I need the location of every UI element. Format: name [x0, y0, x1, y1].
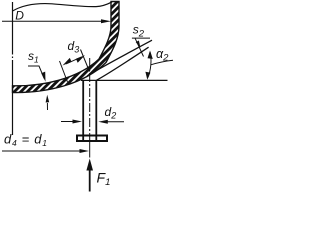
- svg-text:s1: s1: [28, 49, 39, 65]
- dimension line D: [2, 19, 111, 23]
- vessel axis centerline: [12, 2, 14, 135]
- svg-text:d3: d3: [68, 39, 80, 55]
- svg-text:s2: s2: [133, 23, 145, 40]
- s1 opposing arrow (below wall): [46, 95, 50, 110]
- nozzle tube left wall: [82, 81, 84, 142]
- svg-text:α2: α2: [156, 47, 169, 64]
- angle alpha2 arc with arrowheads: [145, 51, 152, 80]
- svg-text:D: D: [15, 9, 24, 23]
- svg-text:d2: d2: [105, 105, 117, 121]
- flange: [77, 136, 107, 142]
- d3 extension line right: [81, 50, 90, 72]
- head shell wall (hatched band): [13, 2, 120, 93]
- nozzle centerline: [89, 58, 91, 142]
- dimension d2 left arrow: [61, 120, 82, 124]
- flare cone wall upper line: [87, 40, 152, 76]
- dimension d3 double arrow: [63, 55, 86, 65]
- flare cone wall lower line: [96, 47, 148, 80]
- dimension d4=d1 line + arrow: [2, 149, 89, 153]
- svg-text:d4 = d1: d4 = d1: [4, 131, 48, 148]
- svg-text:F1: F1: [97, 170, 111, 189]
- opening plane line: [81, 79, 168, 81]
- alpha2 leader line: [151, 60, 173, 65]
- force F1 arrow: [86, 159, 93, 192]
- dimension d2 right arrow: [98, 120, 124, 124]
- s2 leader + arrow: [132, 38, 150, 56]
- break line (wavy top edge): [13, 2, 112, 11]
- d3 extension line left: [60, 61, 68, 82]
- s1 leader + arrow: [28, 66, 46, 82]
- nozzle tube right wall: [95, 80, 97, 142]
